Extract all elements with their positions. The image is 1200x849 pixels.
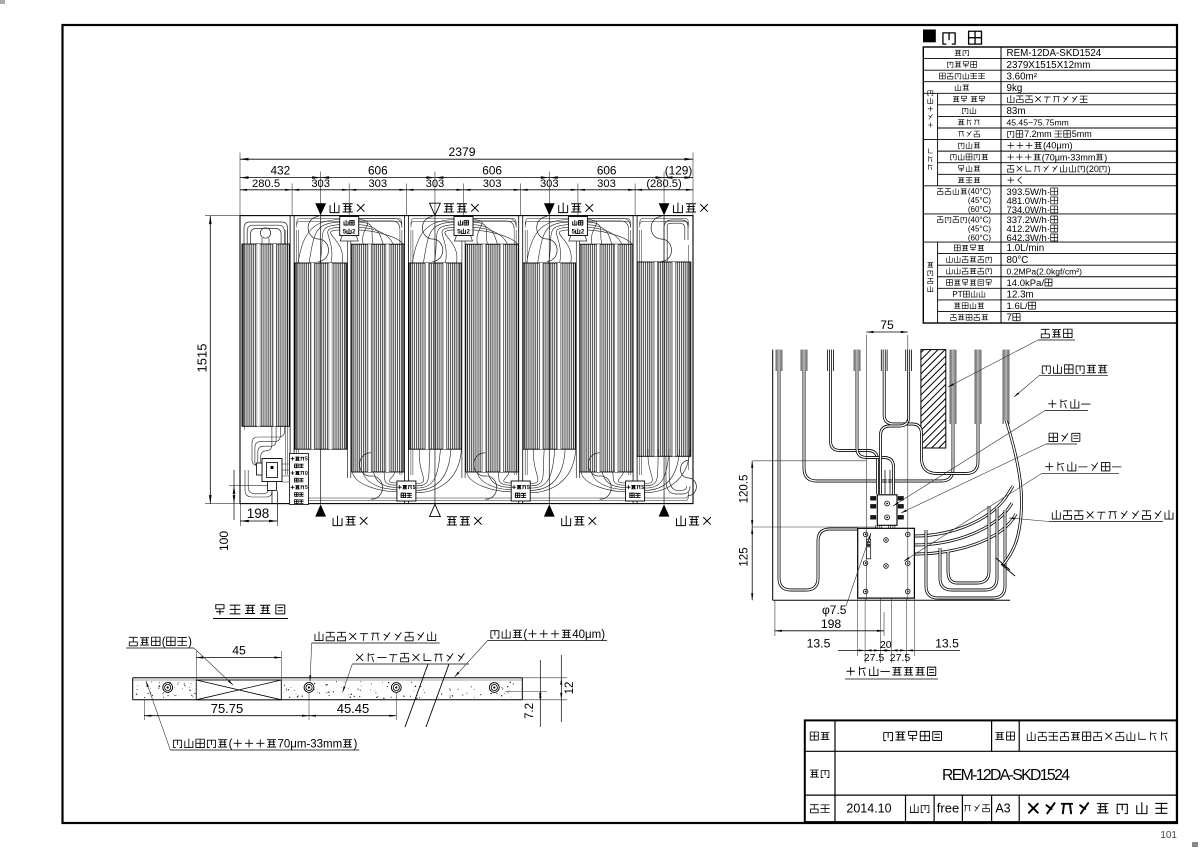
svg-text:198: 198 [247,506,270,521]
svg-text:40μm): 40μm) [572,629,605,641]
svg-text:5mm: 5mm [1072,129,1092,139]
svg-text:303: 303 [368,178,387,190]
svg-text:9kg: 9kg [1007,83,1023,94]
svg-text:303: 303 [597,178,616,190]
svg-text:7.2: 7.2 [524,703,536,719]
svg-text:A3: A3 [995,802,1010,816]
svg-text:(40μm): (40μm) [1043,141,1073,151]
svg-text:70μm-33mm: 70μm-33mm [278,739,343,751]
svg-text:2379: 2379 [448,145,475,159]
svg-text:20: 20 [880,639,892,651]
svg-text:280.5: 280.5 [252,178,280,190]
svg-text:303: 303 [311,178,330,190]
svg-text:120.5: 120.5 [739,475,751,504]
svg-text:303: 303 [540,178,559,190]
svg-text:5: 5 [305,457,308,463]
svg-text:(60°C): (60°C) [968,233,991,242]
svg-text:303: 303 [483,178,502,190]
svg-text:): ) [353,739,357,751]
svg-text:45.45~75.75mm: 45.45~75.75mm [1007,118,1069,128]
svg-text:(280.5): (280.5) [646,178,682,190]
svg-text:(129): (129) [665,163,693,177]
svg-text:7: 7 [1007,313,1012,324]
svg-text:5: 5 [305,485,308,491]
svg-text:125: 125 [739,547,751,566]
svg-text:): ) [188,637,192,649]
svg-text:27.5: 27.5 [890,652,911,664]
svg-text:(: ( [229,739,233,751]
svg-text:75: 75 [880,318,894,332]
svg-text:3.60m²: 3.60m² [1007,71,1038,82]
svg-text:45: 45 [232,644,246,658]
svg-text:REM-12DA-SKD1524: REM-12DA-SKD1524 [1007,48,1102,59]
svg-text:606: 606 [597,163,617,177]
svg-text:642.3W/h·: 642.3W/h· [1007,233,1050,244]
svg-text:198: 198 [821,617,842,631]
svg-text:606: 606 [482,163,502,177]
svg-text:1.6L/: 1.6L/ [1007,301,1029,312]
svg-text:2014.10: 2014.10 [846,802,891,816]
svg-text:free: free [937,801,959,816]
svg-text:): ) [1108,164,1111,174]
svg-text:): ) [1104,152,1107,162]
svg-text:100: 100 [217,531,231,551]
svg-text:12: 12 [564,682,576,695]
svg-text:0: 0 [305,471,308,477]
svg-text:φ7.5: φ7.5 [822,603,847,617]
svg-text:7.2mm: 7.2mm [1024,129,1054,139]
svg-text:5: 5 [641,485,644,491]
svg-text:303: 303 [426,178,445,190]
svg-text:14.0kPa/: 14.0kPa/ [1007,278,1045,289]
svg-text:(70μm-33mm: (70μm-33mm [1042,152,1096,162]
svg-text:606: 606 [368,163,388,177]
svg-text:5: 5 [527,485,530,491]
svg-text:13.5: 13.5 [807,637,831,651]
svg-text:27.5: 27.5 [864,652,885,664]
svg-text:(40°C): (40°C) [968,187,991,196]
svg-text:101: 101 [1160,830,1177,841]
svg-text:45.45: 45.45 [337,701,370,716]
svg-text:13.5: 13.5 [935,637,959,651]
svg-text:PT: PT [952,290,962,299]
svg-text:1.0L/min: 1.0L/min [1007,243,1045,254]
svg-text:12.3m: 12.3m [1007,290,1034,301]
svg-text:432: 432 [270,163,290,177]
svg-text:5: 5 [413,485,416,491]
svg-text:75.75: 75.75 [211,701,244,716]
svg-text:83m: 83m [1007,106,1026,117]
svg-text:80°C: 80°C [1007,255,1029,266]
svg-text:(45°C): (45°C) [968,224,991,233]
svg-text:(60°C): (60°C) [968,205,991,214]
svg-text:2379X1515X12mm: 2379X1515X12mm [1007,60,1091,71]
svg-text:(45°C): (45°C) [968,196,991,205]
svg-text:(20: (20 [1086,164,1099,174]
svg-text:(: ( [162,637,166,649]
svg-text:REM-12DA-SKD1524: REM-12DA-SKD1524 [942,767,1070,784]
svg-text:(40°C): (40°C) [968,215,991,224]
svg-text:0.2MPa(2.0kgf/cm²): 0.2MPa(2.0kgf/cm²) [1007,266,1083,276]
svg-text:1515: 1515 [195,344,210,373]
svg-text:(: ( [523,629,527,641]
